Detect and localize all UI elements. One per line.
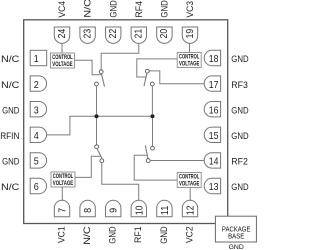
svg-text:5: 5: [34, 157, 39, 168]
svg-text:N/C: N/C: [82, 226, 93, 244]
pin 22 (GND): [106, 27, 121, 43]
wire control TL to SW4 arm: [75, 60, 102, 74]
wire control BR to SW2 arm: [134, 155, 177, 180]
svg-text:N/C: N/C: [83, 0, 94, 18]
svg-text:CONTROL: CONTROL: [179, 173, 199, 180]
pin 10 (RF1): [131, 200, 146, 216]
svg-text:VOLTAGE: VOLTAGE: [179, 181, 200, 188]
svg-text:8: 8: [83, 208, 94, 213]
svg-text:CONTROL: CONTROL: [52, 54, 72, 61]
control voltage box VC1 (bottom-left): [51, 172, 75, 187]
svg-text:RF2: RF2: [231, 157, 248, 168]
switch SW3 arm (open): [144, 73, 147, 86]
svg-text:1: 1: [34, 54, 39, 65]
switch SW2 pole terminal: [151, 146, 155, 150]
wire control box BR to pin12 VC2: [189, 188, 191, 201]
svg-text:6: 6: [34, 182, 39, 193]
pin 8 (N/C): [80, 200, 95, 216]
wire SW3 throw to common node B: [151, 86, 153, 114]
svg-text:RF4: RF4: [134, 0, 145, 17]
svg-text:RFIN: RFIN: [0, 131, 19, 142]
svg-text:9: 9: [109, 208, 120, 213]
svg-text:14: 14: [209, 157, 219, 168]
svg-text:VC1: VC1: [56, 226, 67, 243]
junction node A (left): [95, 114, 99, 118]
wire common node B to SW2 pole: [152, 118, 154, 146]
junction node B (right): [151, 114, 155, 118]
switch SW1 pole terminal: [95, 145, 99, 149]
svg-text:GND: GND: [108, 0, 119, 17]
switch SW4 pole terminal: [99, 70, 103, 74]
package outline: [24, 20, 228, 224]
svg-text:RF1: RF1: [133, 226, 144, 243]
control voltage box VC2 (bottom-right): [177, 173, 201, 188]
pin 7 (VC1): [54, 200, 69, 216]
pin 15 (GND): [204, 127, 220, 142]
pin 13 (GND): [204, 178, 220, 193]
svg-text:GND: GND: [231, 105, 248, 116]
svg-text:BASE: BASE: [228, 232, 244, 241]
svg-text:23: 23: [82, 29, 93, 39]
svg-text:RF3: RF3: [231, 80, 248, 91]
switch SW1 throw terminal: [100, 159, 104, 163]
svg-text:3: 3: [34, 105, 39, 116]
pin 2 (N/C): [30, 76, 46, 91]
svg-text:N/C: N/C: [1, 54, 19, 65]
pin 3 (GND): [30, 102, 46, 117]
wire SW4 throw to common node A: [96, 86, 98, 114]
wire common line between junctions: [97, 115, 153, 117]
svg-text:GND: GND: [159, 226, 170, 243]
switch SW2 arm (open): [145, 146, 148, 159]
pin 19 (VC3): [182, 27, 197, 43]
pin 21 (RF4): [131, 27, 146, 43]
switch SW3 pole terminal: [145, 69, 149, 73]
control voltage box VC4 (top-left): [51, 53, 75, 68]
svg-text:GND: GND: [108, 226, 119, 243]
svg-text:GND: GND: [231, 54, 248, 65]
svg-text:2: 2: [34, 80, 39, 91]
pin 16 (GND): [204, 102, 220, 117]
pin 1 (N/C): [30, 50, 47, 65]
svg-text:GND: GND: [160, 0, 171, 17]
svg-text:4: 4: [34, 131, 39, 142]
svg-text:N/C: N/C: [1, 80, 19, 91]
wire SW1 throw to pin10 RF1: [102, 163, 139, 201]
pin 24 (VC4): [54, 27, 69, 43]
svg-text:11: 11: [160, 205, 171, 215]
wire control box BL to pin7 VC1: [61, 187, 63, 201]
svg-text:VOLTAGE: VOLTAGE: [52, 61, 73, 68]
svg-text:15: 15: [209, 131, 219, 142]
svg-text:VOLTAGE: VOLTAGE: [179, 61, 200, 68]
wire control BL to SW1 arm: [75, 156, 101, 177]
wire pin24 VC4 to control box TL: [61, 44, 63, 54]
pin 9 (GND): [106, 200, 121, 216]
switch SW3 throw terminal: [150, 82, 154, 86]
switch SW1 arm (open): [97, 148, 102, 158]
svg-text:GND: GND: [231, 131, 248, 142]
pin 14 (RF2): [204, 153, 220, 168]
svg-text:21: 21: [134, 29, 145, 39]
svg-text:GND: GND: [2, 105, 19, 116]
svg-text:CONTROL: CONTROL: [179, 53, 199, 60]
svg-text:19: 19: [185, 29, 196, 39]
pin 11 (GND): [157, 200, 172, 216]
wire control TR to SW3 arm: [137, 59, 177, 77]
pin 5 (GND): [30, 153, 46, 168]
switch SW4 arm (open): [101, 74, 104, 87]
svg-text:20: 20: [159, 29, 170, 39]
pin 6 (N/C): [30, 178, 46, 193]
svg-text:N/C: N/C: [1, 182, 19, 193]
svg-text:GND: GND: [2, 157, 19, 168]
pin 20 (GND): [157, 27, 172, 43]
svg-text:7: 7: [58, 208, 69, 213]
pin 17 (RF3): [204, 76, 220, 91]
svg-text:17: 17: [209, 80, 219, 91]
svg-text:12: 12: [186, 205, 197, 215]
svg-text:16: 16: [209, 105, 219, 116]
pin 23 (N/C): [80, 27, 95, 43]
pin 12 (VC2): [182, 200, 197, 216]
pin 4 (RFIN): [30, 127, 46, 142]
svg-text:VOLTAGE: VOLTAGE: [53, 180, 74, 187]
svg-text:GND: GND: [231, 182, 248, 193]
svg-text:VC4: VC4: [57, 0, 68, 17]
svg-text:CONTROL: CONTROL: [53, 173, 73, 180]
wire common node A to SW1 pole: [96, 118, 98, 145]
wire SW2 throw to pin14 RF2: [150, 160, 204, 162]
svg-text:VC2: VC2: [184, 226, 195, 243]
svg-text:18: 18: [209, 54, 219, 65]
wire SW3 pole to pin17 RF3: [149, 71, 204, 84]
svg-text:22: 22: [108, 29, 119, 39]
svg-text:24: 24: [57, 29, 68, 39]
svg-text:10: 10: [134, 205, 145, 215]
wire RFIN pin4 to common node: [47, 116, 97, 135]
wire pin21 RF4 to SW4 pole: [101, 44, 139, 70]
svg-text:VC3: VC3: [185, 1, 196, 18]
wire pin19 VC3 to control box TR: [189, 43, 191, 53]
svg-text:GND: GND: [229, 244, 244, 250]
svg-text:13: 13: [209, 182, 219, 193]
control voltage box VC3 (top-right): [177, 53, 201, 68]
switch SW2 throw terminal: [146, 159, 150, 163]
package base box: [215, 216, 256, 242]
switch SW4 throw terminal: [95, 82, 99, 86]
pin 18 (GND): [204, 50, 220, 65]
